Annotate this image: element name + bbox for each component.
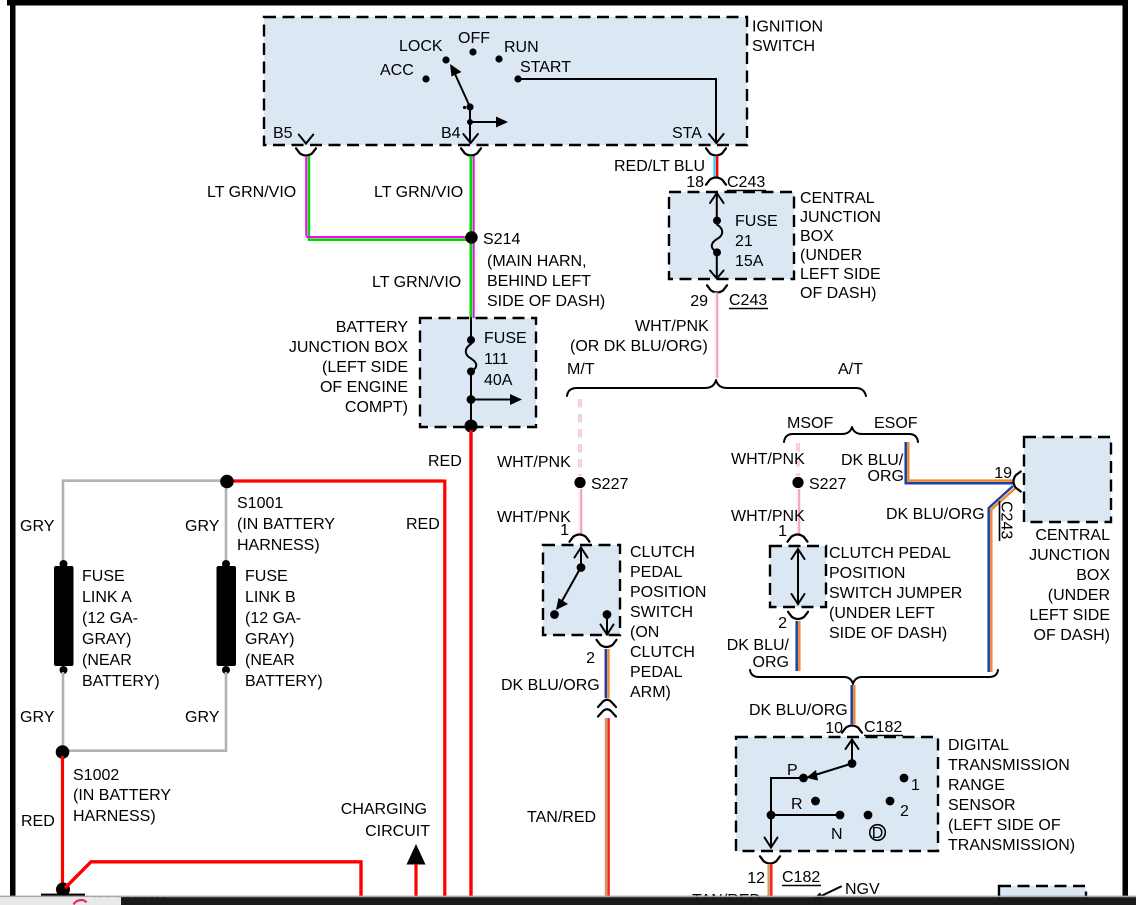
wire GRY top left [63, 481, 226, 562]
connector pin 19 [1014, 472, 1021, 492]
inline connector [598, 700, 616, 707]
svg-text:CLUTCH: CLUTCH [630, 644, 695, 661]
svg-text:GRAY): GRAY) [82, 631, 131, 648]
svg-text:12: 12 [747, 870, 765, 887]
position D [864, 811, 873, 820]
frame left border [10, 0, 16, 896]
svg-text:HARNESS): HARNESS) [73, 808, 156, 825]
svg-text:M/T: M/T [567, 361, 595, 378]
svg-text:C243: C243 [727, 174, 765, 191]
svg-text:OF DASH): OF DASH) [800, 285, 876, 302]
wire DK BLU/ORG to DTRS [850, 685, 853, 724]
connector STA [706, 148, 726, 155]
position R [811, 797, 820, 806]
svg-text:BATTERY): BATTERY) [245, 673, 323, 690]
bottom gray hairline [0, 896, 1136, 898]
svg-text:SWITCH JUMPER: SWITCH JUMPER [829, 585, 962, 602]
splice S227 M/T [574, 477, 585, 488]
svg-text:RANGE: RANGE [948, 777, 1005, 794]
svg-text:ORG: ORG [753, 654, 789, 671]
svg-text:(NEAR: (NEAR [82, 652, 132, 669]
svg-text:2: 2 [778, 615, 787, 632]
svg-text:LT GRN/VIO: LT GRN/VIO [374, 184, 463, 201]
wire GRY right vertical [225, 481, 228, 562]
connector pin 1 [570, 535, 590, 542]
svg-text:C182: C182 [864, 719, 902, 736]
connector jumper pin 2 [788, 612, 808, 619]
connector C182 pin 10 [842, 726, 862, 733]
splice S1002 [56, 745, 70, 759]
svg-text:B4: B4 [441, 125, 461, 142]
svg-text:PEDAL: PEDAL [630, 564, 683, 581]
DTRS internal path [771, 778, 840, 815]
svg-text:SWITCH: SWITCH [630, 604, 693, 621]
wire TAN/RED M/T [605, 718, 608, 897]
svg-text:2: 2 [586, 650, 595, 667]
brace M/T A/T [567, 380, 866, 396]
central junction box (fuse 21) [669, 192, 794, 279]
svg-text:SWITCH: SWITCH [752, 38, 815, 55]
svg-text:S227: S227 [591, 476, 628, 493]
svg-text:TRANSMISSION): TRANSMISSION) [948, 837, 1075, 854]
position 2 [886, 797, 895, 806]
svg-text:LT GRN/VIO: LT GRN/VIO [372, 274, 461, 291]
svg-text:PEDAL: PEDAL [630, 664, 683, 681]
svg-text:BOX: BOX [1076, 567, 1110, 584]
brace MSOF ESOF [784, 427, 918, 442]
fuse 21 symbol [716, 194, 718, 218]
svg-text:2: 2 [900, 803, 909, 820]
svg-text:A/T: A/T [838, 361, 863, 378]
frame right border [1123, 0, 1129, 896]
wire B5 LT GRN/VIO horizontal [306, 236, 466, 238]
battery plate [41, 894, 85, 897]
svg-text:NGV: NGV [845, 881, 880, 898]
svg-text:10: 10 [825, 720, 843, 737]
svg-text:21: 21 [735, 233, 753, 250]
svg-text:FUSE: FUSE [484, 330, 527, 347]
central junction box C243 right [1024, 437, 1111, 522]
svg-text:C243: C243 [729, 292, 767, 309]
svg-text:WHT/PNK: WHT/PNK [731, 451, 805, 468]
svg-text:1: 1 [911, 777, 920, 794]
svg-text:LEFT SIDE: LEFT SIDE [1029, 607, 1110, 624]
wire DK BLU/ORG jumper to brace [795, 621, 798, 671]
svg-text:FUSE: FUSE [245, 568, 288, 585]
wire GRY bottom left [62, 672, 65, 748]
svg-text:D: D [872, 825, 884, 842]
svg-text:START: START [520, 59, 571, 76]
svg-text:STA: STA [672, 125, 702, 142]
svg-text:(MAIN HARN,: (MAIN HARN, [487, 253, 587, 270]
clutch switch internals [580, 548, 582, 566]
svg-text:111: 111 [484, 351, 508, 368]
svg-text:WHT/PNK: WHT/PNK [731, 508, 805, 525]
battery node [56, 883, 70, 897]
svg-text:WHT/PNK: WHT/PNK [635, 318, 709, 335]
svg-text:S227: S227 [809, 476, 846, 493]
svg-text:CENTRAL: CENTRAL [800, 190, 875, 207]
DTRS entry arrow [851, 740, 853, 762]
junction dot and arrow [467, 395, 476, 404]
svg-text:FUSE: FUSE [82, 568, 125, 585]
svg-text:BATTERY): BATTERY) [82, 673, 160, 690]
svg-text:1: 1 [560, 522, 569, 539]
svg-text:LEFT SIDE: LEFT SIDE [800, 266, 881, 283]
wire WHT/PNK AT dashed [796, 443, 799, 476]
svg-text:ARM): ARM) [630, 684, 671, 701]
svg-text:(LEFT SIDE OF: (LEFT SIDE OF [948, 817, 1061, 834]
svg-text:OF DASH): OF DASH) [1034, 627, 1110, 644]
svg-text:(NEAR: (NEAR [245, 652, 295, 669]
svg-text:RED: RED [406, 516, 440, 533]
svg-text:LINK A: LINK A [82, 589, 132, 606]
svg-text:GRY: GRY [20, 518, 55, 535]
svg-text:(OR DK BLU/ORG): (OR DK BLU/ORG) [570, 338, 708, 355]
fuse link B [222, 560, 230, 568]
svg-text:BOX: BOX [800, 228, 834, 245]
bottom right partial box [999, 886, 1086, 905]
battery junction box [420, 318, 536, 427]
STA wire from START [518, 79, 716, 143]
svg-text:(UNDER: (UNDER [800, 247, 862, 264]
svg-text:GRY: GRY [185, 709, 220, 726]
svg-text:CIRCUIT: CIRCUIT [365, 823, 430, 840]
DTRS exit arrow [770, 815, 772, 847]
wire DK BLU/ORG M/T [605, 649, 608, 698]
wire RED battery to right [65, 860, 362, 897]
svg-text:CLUTCH PEDAL: CLUTCH PEDAL [829, 545, 951, 562]
svg-text:CLUTCH: CLUTCH [630, 544, 695, 561]
frame top border [7, 0, 1128, 6]
connector B5 [296, 148, 316, 155]
wire RED from S1001 [232, 480, 445, 898]
svg-text:S214: S214 [483, 231, 520, 248]
svg-text:(LEFT SIDE: (LEFT SIDE [322, 359, 408, 376]
splice S227 AT [792, 477, 803, 488]
svg-text:(12 GA-: (12 GA- [245, 610, 301, 627]
svg-text:LOCK: LOCK [399, 38, 443, 55]
bottom node of battery junction box [465, 420, 478, 433]
svg-text:BATTERY: BATTERY [336, 319, 409, 336]
svg-text:COMPT): COMPT) [345, 399, 408, 416]
wire B4 LT GRN/VIO [470, 156, 473, 318]
svg-text:CHARGING: CHARGING [341, 801, 427, 818]
position P [799, 774, 808, 783]
DTRS selector arm to P [815, 764, 852, 776]
digital transmission range sensor box [736, 737, 938, 851]
svg-text:OFF: OFF [458, 30, 490, 47]
wire WHT/PNK M/T solid [578, 489, 580, 534]
svg-text:RUN: RUN [504, 39, 539, 56]
position 1 [900, 774, 909, 783]
connector jumper pin 1 [788, 535, 808, 542]
svg-text:DK BLU/: DK BLU/ [841, 452, 904, 469]
svg-text:(IN BATTERY: (IN BATTERY [73, 787, 171, 804]
wire WHT/PNK AT solid [796, 489, 798, 534]
ignition switch box [264, 17, 747, 145]
connector C182 pin 12 [760, 856, 780, 863]
svg-text:DK BLU/ORG: DK BLU/ORG [749, 702, 848, 719]
clutch pedal position switch jumper box [770, 546, 826, 607]
wire GRY bottom right [68, 672, 226, 751]
svg-text:S1002: S1002 [73, 767, 119, 784]
wire WHT/PNK M/T dashed [578, 399, 581, 476]
svg-text:RED: RED [428, 453, 462, 470]
svg-text:1: 1 [778, 523, 787, 540]
svg-text:ORG: ORG [868, 468, 904, 485]
svg-text:S1001: S1001 [237, 495, 283, 512]
svg-text:19: 19 [994, 465, 1012, 482]
svg-text:OF ENGINE: OF ENGINE [320, 379, 408, 396]
svg-text:29: 29 [690, 293, 708, 310]
svg-text:FUSE: FUSE [735, 213, 778, 230]
svg-text:15A: 15A [735, 253, 764, 270]
charging circuit arrow [407, 844, 426, 865]
svg-text:GRAY): GRAY) [245, 631, 294, 648]
svg-text:MSOF: MSOF [787, 415, 833, 432]
svg-text:(IN BATTERY: (IN BATTERY [237, 516, 335, 533]
wire STA RED/LT BLU [713, 156, 715, 178]
svg-text:ACC: ACC [380, 62, 414, 79]
svg-text:JUNCTION BOX: JUNCTION BOX [289, 339, 408, 356]
arm stem and right arrow [469, 107, 471, 122]
svg-text:18: 18 [686, 174, 704, 191]
B4 exit arrow [469, 122, 471, 143]
wire DK BLU/ORG return from C243 [989, 486, 1013, 672]
merge brace [750, 670, 998, 684]
fuse 111 symbol [470, 318, 472, 336]
splice S214 [465, 231, 477, 243]
partial red logo glyph [74, 900, 87, 904]
svg-text:(UNDER: (UNDER [1048, 587, 1110, 604]
svg-text:JUNCTION: JUNCTION [1029, 547, 1110, 564]
jumper internals double arrow [797, 549, 799, 604]
wire RED from S1002 to battery [61, 756, 64, 888]
wire RED from battery junction box [469, 430, 472, 897]
connector C243 pin 29 [707, 285, 727, 292]
svg-text:C182: C182 [782, 869, 820, 886]
connector C243 pin 18 [706, 178, 726, 185]
switch arm [466, 103, 473, 110]
svg-text:TRANSMISSION: TRANSMISSION [948, 757, 1070, 774]
svg-text:SIDE OF DASH): SIDE OF DASH) [829, 625, 947, 642]
svg-text:(12 GA-: (12 GA- [82, 610, 138, 627]
svg-text:IGNITION: IGNITION [752, 19, 823, 36]
svg-text:TAN/RED: TAN/RED [527, 809, 596, 826]
svg-text:SIDE OF DASH): SIDE OF DASH) [487, 293, 605, 310]
bottom black bar [121, 897, 1136, 905]
svg-text:LINK B: LINK B [245, 589, 296, 606]
svg-text:DK BLU/ORG: DK BLU/ORG [886, 506, 985, 523]
svg-text:POSITION: POSITION [630, 584, 706, 601]
svg-text:JUNCTION: JUNCTION [800, 209, 881, 226]
svg-text:SENSOR: SENSOR [948, 797, 1016, 814]
svg-text:CENTRAL: CENTRAL [1035, 527, 1110, 544]
svg-text:DK BLU/: DK BLU/ [727, 637, 790, 654]
svg-text:RED: RED [21, 813, 55, 830]
svg-text:P: P [787, 762, 798, 779]
splice S1001 [220, 475, 234, 489]
connector B4 [461, 148, 481, 155]
wire TAN/RED from pin 12 [767, 864, 770, 897]
svg-text:40A: 40A [484, 372, 513, 389]
svg-text:ESOF: ESOF [874, 415, 918, 432]
svg-text:GRY: GRY [185, 518, 220, 535]
svg-text:BEHIND LEFT: BEHIND LEFT [487, 273, 591, 290]
wire DK BLU/ORG ESOF [906, 442, 1014, 483]
svg-text:N: N [831, 826, 843, 843]
svg-text:DK BLU/ORG: DK BLU/ORG [501, 677, 600, 694]
svg-text:(ON: (ON [630, 624, 659, 641]
svg-text:HARNESS): HARNESS) [237, 537, 320, 554]
svg-text:(UNDER LEFT: (UNDER LEFT [829, 605, 935, 622]
wire B5 LT GRN/VIO vertical [305, 156, 307, 236]
bottom left light strip [0, 897, 121, 905]
connector pin 2 [597, 640, 617, 647]
svg-text:B5: B5 [273, 125, 293, 142]
svg-text:DIGITAL: DIGITAL [948, 737, 1009, 754]
svg-text:WHT/PNK: WHT/PNK [497, 454, 571, 471]
svg-text:RED/LT BLU: RED/LT BLU [614, 158, 705, 175]
svg-text:POSITION: POSITION [829, 565, 905, 582]
clutch pedal position switch box [543, 545, 620, 635]
svg-text:LT GRN/VIO: LT GRN/VIO [207, 184, 296, 201]
svg-text:GRY: GRY [20, 709, 55, 726]
wire WHT/PNK below fuse 21 [714, 293, 716, 379]
B5 exit chevron [299, 135, 314, 144]
svg-text:R: R [791, 796, 803, 813]
fuse link A [60, 560, 68, 568]
